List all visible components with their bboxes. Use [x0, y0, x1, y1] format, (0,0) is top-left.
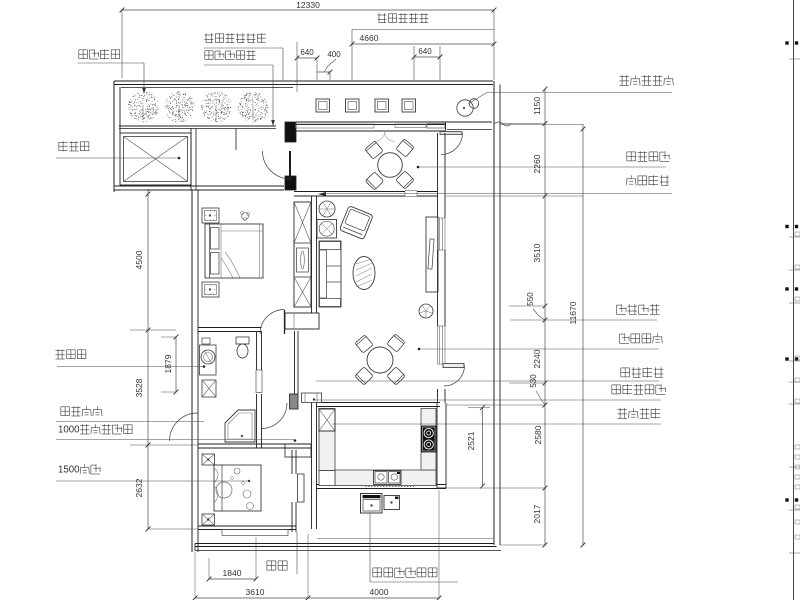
svg-text:3510: 3510 [532, 243, 542, 262]
svg-text:4660: 4660 [360, 33, 379, 43]
svg-text:400: 400 [327, 50, 341, 59]
svg-text:12330: 12330 [296, 0, 320, 10]
svg-text:2240: 2240 [532, 349, 542, 368]
svg-text:2580: 2580 [533, 425, 543, 444]
svg-text:2521: 2521 [466, 431, 476, 450]
svg-text:3528: 3528 [134, 378, 144, 397]
svg-text:3610: 3610 [246, 587, 265, 597]
svg-text:1840: 1840 [223, 568, 242, 578]
svg-text:550: 550 [526, 292, 535, 306]
svg-text:1000: 1000 [58, 425, 79, 436]
svg-text:640: 640 [300, 48, 314, 57]
svg-text:4500: 4500 [134, 250, 144, 269]
svg-text:2017: 2017 [532, 504, 542, 523]
svg-text:640: 640 [418, 47, 432, 56]
svg-text:1150: 1150 [532, 97, 542, 116]
svg-text:11670: 11670 [568, 301, 578, 324]
svg-text:1879: 1879 [163, 354, 173, 373]
svg-text:2260: 2260 [532, 154, 542, 173]
svg-text:4000: 4000 [370, 587, 389, 597]
svg-text:1500: 1500 [58, 465, 79, 476]
